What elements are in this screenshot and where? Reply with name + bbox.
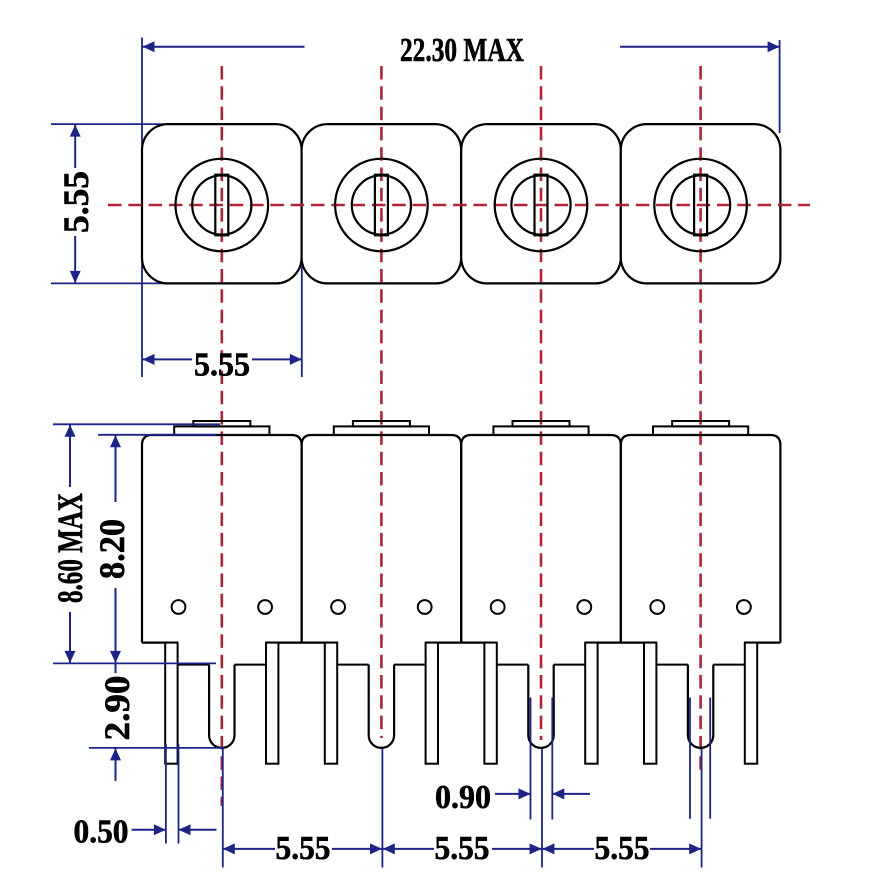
- front view: unit 2 adjustment screw cap (narrow plate): [353, 421, 410, 426]
- svg-text:5.55: 5.55: [194, 347, 250, 384]
- dim 22.30: left arrowhead: [143, 41, 155, 52]
- dim 2.90: bottom extension line (pin tip): [89, 747, 224, 749]
- front view: unit 3 center pin (rounded tip): [528, 665, 553, 748]
- dim 2.90: dimension line upper stub: [115, 663, 117, 673]
- dim 8.60/8.20: bottom extension line: [53, 662, 216, 664]
- dim 0.90: right arrow tail: [552, 793, 590, 795]
- bottom 5.55 #3: left arrowhead: [542, 843, 554, 854]
- front view: unit 2 right hole: [418, 600, 432, 614]
- front view: unit 1 left hole: [172, 600, 186, 614]
- dim 5.55 left: dimension line upper segment: [74, 124, 76, 168]
- front view: bottom shoulder line segment 4: [585, 641, 656, 643]
- centerline: unit 3 vertical axis: [540, 66, 543, 740]
- top view: unit 4 rotor inner circle: [671, 175, 730, 234]
- dim 8.60: bottom arrowhead: [65, 651, 76, 663]
- front view: unit 1 adjustment screw cap (narrow plate): [193, 421, 250, 426]
- dim 22.30: dimension line right segment: [620, 46, 780, 48]
- top view: unit 1 body outline (rounded square): [142, 124, 302, 283]
- front view: unit 2 left inner shoulder: [337, 664, 369, 666]
- centerline: top view horizontal axis: [108, 204, 810, 207]
- front view: bottom shoulder line segment 2: [266, 641, 337, 643]
- top view: unit 2 screwdriver slot: [375, 175, 388, 236]
- front view: bottom shoulder line segment 5: [745, 641, 781, 643]
- dim 8.20: dimension line upper segment: [115, 435, 117, 502]
- dim 22.30/5.55: left extension line (under square edge): [141, 38, 143, 378]
- bottom 5.55 #3: right arrowhead: [689, 843, 701, 854]
- front view: unit 1 right hole: [258, 600, 272, 614]
- svg-text:8.20: 8.20: [92, 519, 132, 579]
- bottom pitch: unit 2 center extension line: [381, 749, 383, 868]
- dim 8.60: dimension line lower segment: [69, 612, 71, 663]
- bottom pitch: unit 3 center extension line: [541, 749, 543, 868]
- front view: unit 4 center pin (rounded tip): [688, 665, 713, 748]
- front view: unit 3 right inner shoulder: [554, 664, 586, 666]
- front view: unit 1 left terminal pin: [165, 643, 177, 764]
- top view: unit 2 body outline (rounded square): [302, 124, 462, 283]
- unit 4 center pin: right edge extension line: [709, 698, 711, 819]
- dim 0.50: left arrow tail: [132, 829, 166, 831]
- svg-text:5.55: 5.55: [595, 830, 650, 867]
- front view: unit 3 left inner shoulder: [497, 664, 529, 666]
- front view: unit 2 left terminal pin: [325, 643, 337, 764]
- front view: body background: [142, 435, 780, 643]
- front view: unit 2 right terminal pin: [426, 643, 438, 764]
- dim 0.90: right arrowhead (outside): [552, 788, 564, 799]
- bottom 5.55 #2: line right part: [492, 848, 542, 850]
- dim 2.90: arrow stem below: [115, 748, 117, 781]
- top view: unit 2 rotor outer circle: [335, 159, 428, 252]
- front view: unit 4 adjustment screw cap (wide plate): [653, 426, 748, 435]
- front view: unit 3 left hole: [491, 600, 505, 614]
- centerline: unit 1 vertical axis: [221, 66, 224, 806]
- top view: unit 4 screwdriver slot: [694, 175, 707, 236]
- dim 5.55 left: bottom arrowhead: [70, 271, 81, 283]
- front view: bottom shoulder line segment 3: [426, 641, 497, 643]
- front view: unit 4 right inner shoulder: [713, 664, 745, 666]
- top view: unit 3 rotor inner circle: [511, 175, 570, 234]
- front view: unit 1 right terminal pin: [266, 643, 278, 764]
- top view: unit 3 body outline (rounded square): [461, 124, 621, 283]
- front view: unit 3 left terminal pin: [484, 643, 496, 764]
- bottom 5.55 #3: line left part: [542, 848, 594, 850]
- top view: unit 1 rotor inner circle: [192, 175, 251, 234]
- dim 5.55 top-view pitch: right arrowhead: [290, 354, 302, 365]
- svg-text:0.50: 0.50: [74, 814, 129, 851]
- bottom 5.55 #2: right arrowhead: [530, 843, 542, 854]
- dim 0.50: left extension line: [165, 744, 167, 844]
- svg-text:5.55: 5.55: [276, 830, 331, 867]
- dim 5.55 top-view pitch: right extension line (under square edge): [301, 256, 303, 377]
- top view: unit 3 rotor outer circle: [495, 159, 588, 252]
- bottom 5.55 #2: line left part: [382, 848, 434, 850]
- front view: unit 4 right hole: [737, 600, 751, 614]
- front view: unit 1 body outline: [142, 435, 302, 643]
- dim 22.30: dimension line left segment: [142, 46, 305, 48]
- top view: unit 1 screwdriver slot: [215, 175, 228, 236]
- dim 0.90: right extension line: [551, 698, 553, 820]
- dim 0.50: right arrowhead (outside): [179, 824, 191, 835]
- dim 5.55 top-view pitch: line left segment: [142, 358, 192, 360]
- dim 0.50: right extension line: [178, 744, 180, 844]
- front view: unit 4 left hole: [650, 600, 664, 614]
- dim 5.55 left: dimension line lower segment: [74, 236, 76, 283]
- svg-text:22.30 MAX: 22.30 MAX: [400, 32, 524, 69]
- bottom pitch: unit 1 center extension line: [222, 749, 224, 868]
- front view: unit 3 right hole: [577, 600, 591, 614]
- svg-text:5.55: 5.55: [435, 830, 490, 867]
- bottom 5.55 #3: line right part: [650, 848, 702, 850]
- dim 2.90: arrowhead (pointing up at pin tip line): [110, 748, 121, 760]
- bottom 5.55 #1: line left part: [223, 848, 275, 850]
- dim 8.60: dimension line upper segment: [69, 424, 71, 487]
- unit 4 center pin: left edge extension line: [689, 698, 691, 819]
- front view: unit 1 right inner shoulder: [235, 664, 267, 666]
- svg-text:2.90: 2.90: [97, 676, 137, 741]
- top view: unit 2 rotor inner circle: [352, 175, 411, 234]
- front view: unit 3 adjustment screw cap (narrow plate): [513, 421, 570, 426]
- front view: unit 1 center pin (rounded tip): [209, 665, 234, 748]
- front view: unit 2 right inner shoulder: [394, 664, 426, 666]
- front view: unit 4 left terminal pin: [644, 643, 656, 764]
- dim 8.60: top arrowhead: [65, 425, 76, 437]
- dim 0.50: right arrow tail: [179, 829, 217, 831]
- front view: unit 2 adjustment screw cap (wide plate): [334, 426, 429, 435]
- front view: unit 2 center pin (rounded tip): [369, 665, 394, 748]
- svg-text:0.90: 0.90: [435, 779, 491, 816]
- dim 22.30: right arrowhead: [768, 41, 780, 52]
- bottom 5.55 #2: left arrowhead: [383, 843, 395, 854]
- dim 8.60: top extension line: [53, 423, 220, 425]
- top view: unit 4 rotor outer circle: [654, 159, 747, 252]
- dim 5.55 left: top arrowhead: [70, 125, 81, 137]
- bottom 5.55 #1: line right part: [332, 848, 382, 850]
- front view: unit 3 body outline: [461, 435, 621, 643]
- front view: unit 4 body outline: [621, 435, 781, 643]
- top view: unit 3 screwdriver slot: [535, 175, 548, 236]
- front view: bottom shoulder line segment 1: [142, 641, 178, 643]
- front view: unit 4 left inner shoulder: [656, 664, 688, 666]
- dim 0.90: left arrow tail: [495, 793, 531, 795]
- centerline: unit 4 vertical axis: [699, 66, 702, 775]
- dim 8.20: top arrowhead: [110, 435, 121, 447]
- bottom pitch: unit 4 center extension line: [701, 749, 703, 868]
- centerline: unit 2 vertical axis: [380, 66, 383, 738]
- front view: unit 3 adjustment screw cap (wide plate): [493, 426, 588, 435]
- dim 8.20: top extension line: [98, 434, 216, 436]
- dim 0.90: left extension line: [530, 698, 532, 820]
- front view: unit 3 right terminal pin: [585, 643, 597, 764]
- top view: unit 4 body outline (rounded square): [621, 124, 781, 283]
- front view: unit 4 right terminal pin: [745, 643, 757, 764]
- front view: unit 1 adjustment screw cap (wide plate): [174, 426, 269, 435]
- dim 5.55 left: bottom extension line: [51, 282, 174, 284]
- top view: unit 1 rotor outer circle: [176, 159, 269, 252]
- dim 5.55 top-view pitch: left arrowhead: [143, 354, 155, 365]
- bottom 5.55 #1: right arrowhead: [370, 843, 382, 854]
- dim 5.55 left: top extension line: [51, 123, 174, 125]
- svg-text:8.60 MAX: 8.60 MAX: [50, 493, 90, 603]
- dim 8.20: dimension line lower segment: [115, 588, 117, 663]
- dim 0.90: left arrowhead (outside): [519, 788, 531, 799]
- dim 22.30: right extension line: [779, 40, 781, 133]
- bottom 5.55 #1: left arrowhead: [223, 843, 235, 854]
- dim 5.55 top-view pitch: line right segment: [252, 358, 302, 360]
- front view: unit 1 left inner shoulder: [178, 664, 210, 666]
- dim 8.20: bottom arrowhead: [110, 651, 121, 663]
- dim 0.50: left arrowhead (outside): [154, 824, 166, 835]
- front view: unit 4 adjustment screw cap (narrow plate): [672, 421, 729, 426]
- front view: unit 2 left hole: [331, 600, 345, 614]
- svg-text:5.55: 5.55: [56, 171, 96, 233]
- front view: unit 2 body outline: [302, 435, 462, 643]
